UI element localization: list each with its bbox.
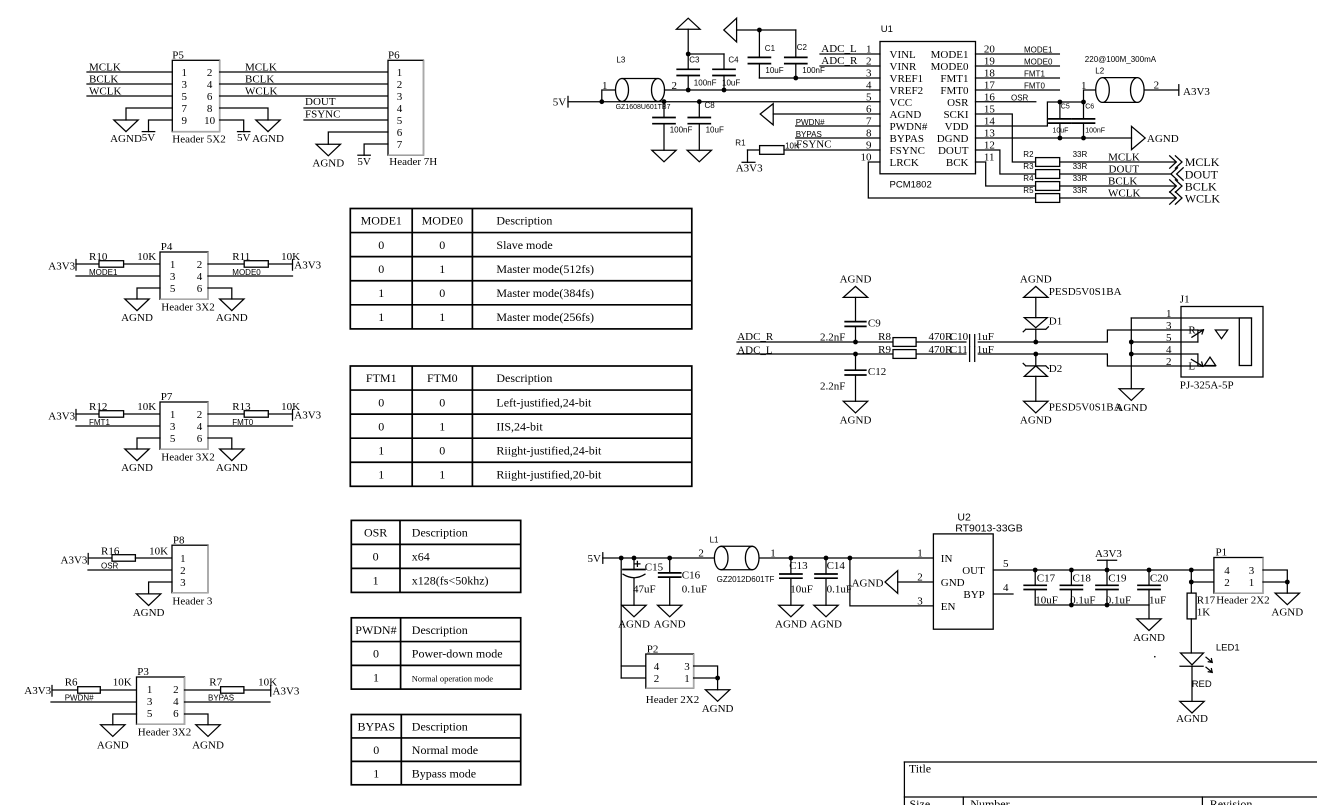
wire MODE1 net at U1 pin20 [976, 46, 1060, 55]
header P8 [172, 534, 213, 607]
svg-text:2.2nF: 2.2nF [820, 380, 845, 392]
svg-text:4: 4 [654, 661, 660, 673]
svg-text:1: 1 [439, 310, 445, 324]
svg-text:Riight-justified,24-bit: Riight-justified,24-bit [496, 443, 602, 457]
wire J1 pin1 [1131, 317, 1181, 319]
capacitor C4 10uF [713, 54, 740, 90]
svg-text:BYPAS: BYPAS [358, 719, 396, 733]
wire LRCK loop U1 pin10 to R5 [868, 162, 1035, 198]
svg-text:3: 3 [180, 577, 186, 589]
ground at C8 [687, 150, 711, 162]
svg-text:1: 1 [378, 443, 384, 457]
wire R17 to LED1 [1190, 619, 1192, 653]
svg-text:ADC_R: ADC_R [737, 331, 774, 343]
svg-text:AGND: AGND [840, 273, 872, 285]
ground AGND below P2 [705, 690, 729, 702]
svg-text:1: 1 [147, 684, 153, 696]
svg-text:L2: L2 [1095, 67, 1104, 76]
title block frame [904, 762, 1317, 805]
svg-text:P3: P3 [137, 666, 149, 678]
svg-text:Master mode(512fs): Master mode(512fs) [496, 262, 594, 276]
svg-text:C1: C1 [765, 44, 776, 53]
svg-text:Description: Description [412, 526, 468, 540]
wire BYPAS net to U1 pin8 [796, 130, 880, 139]
svg-text:Master mode(384fs): Master mode(384fs) [496, 286, 594, 300]
junction dot C6 bottom [1081, 136, 1086, 141]
svg-text:5: 5 [1166, 332, 1172, 344]
svg-text:1: 1 [170, 259, 176, 271]
capacitor C16 0.1uF [659, 558, 707, 605]
svg-text:DOUT: DOUT [1109, 163, 1140, 175]
svg-text:1: 1 [602, 80, 608, 92]
svg-text:A3V3: A3V3 [48, 410, 75, 422]
power port A3V3 right of R13 [293, 410, 322, 422]
svg-text:AGND: AGND [890, 109, 922, 121]
svg-text:1: 1 [1166, 308, 1172, 320]
wire L1 to U2 IN [759, 557, 933, 559]
svg-text:Size: Size [910, 797, 931, 805]
svg-text:R16: R16 [101, 545, 120, 557]
svg-text:A3V3: A3V3 [294, 410, 321, 422]
svg-text:AGND: AGND [1176, 713, 1208, 725]
svg-text:33R: 33R [1073, 150, 1088, 159]
ground AGND arrow right on DGND [1132, 126, 1179, 149]
resistor R4 33R [1023, 174, 1087, 191]
svg-text:FTM1: FTM1 [366, 371, 397, 385]
svg-text:Header 2X2: Header 2X2 [646, 694, 699, 706]
junction dot C7 top [662, 99, 667, 104]
wire FMT0 net at U1 pin17 [976, 82, 1060, 91]
svg-text:MODE0: MODE0 [232, 268, 261, 277]
svg-text:Header 3X2: Header 3X2 [161, 301, 214, 313]
wire MODE0 net to P4 pin4 [208, 268, 293, 277]
ground AGND at P3 pin6 [185, 714, 224, 751]
svg-text:Riight-justified,20-bit: Riight-justified,20-bit [496, 467, 602, 481]
svg-text:2: 2 [397, 79, 403, 91]
svg-text:P5: P5 [172, 50, 184, 62]
svg-text:R4: R4 [1023, 174, 1034, 183]
svg-text:MODE0: MODE0 [931, 61, 969, 73]
svg-text:2: 2 [173, 684, 179, 696]
capacitor C20 1uF [1138, 570, 1169, 607]
svg-text:AGND: AGND [618, 618, 650, 630]
junction dot bus C18 [1069, 603, 1074, 608]
wire MCLK into P5 pin1 [87, 62, 172, 74]
svg-text:MODE1: MODE1 [1024, 46, 1053, 55]
svg-text:MODE1: MODE1 [361, 214, 402, 228]
svg-text:ADC_L: ADC_L [821, 43, 857, 55]
ground AGND below C12 [843, 401, 867, 413]
svg-text:Description: Description [496, 214, 552, 228]
svg-text:FMT1: FMT1 [940, 73, 968, 85]
wire BCLK P5 pin4 to P6 pin2 [220, 74, 388, 86]
junction dot C5 top [1058, 100, 1063, 105]
wire ADC_R net to U1 pin2 [820, 55, 880, 67]
junction dot C16 [667, 556, 672, 561]
svg-text:4: 4 [1224, 565, 1230, 577]
svg-text:AGND: AGND [216, 462, 248, 474]
junction dot P1 pin2 [1189, 580, 1194, 585]
svg-text:BYPAS: BYPAS [208, 694, 234, 703]
svg-text:RT9013-33GB: RT9013-33GB [955, 523, 1023, 535]
resistor R17 1K vertical [1187, 593, 1216, 619]
resistor R13 [208, 401, 300, 417]
wire R3 to DOUT port [1060, 163, 1171, 175]
wire P1 pin1 stub [1263, 581, 1287, 583]
svg-text:5: 5 [170, 433, 176, 445]
svg-text:R6: R6 [65, 677, 78, 689]
wire BCLK into P5 pin3 [87, 74, 172, 86]
capacitor C14 0.1uF [815, 558, 852, 605]
svg-text:10K: 10K [113, 677, 132, 689]
svg-text:MODE1: MODE1 [89, 268, 118, 277]
wire OSR net to P8 pin2 [88, 561, 172, 570]
svg-text:C4: C4 [728, 56, 739, 65]
wire U2 OUT rail A3V3 [993, 569, 1214, 571]
svg-text:Bypass mode: Bypass mode [412, 766, 476, 780]
svg-text:AGND: AGND [775, 618, 807, 630]
table FTM1/FTM0 description [350, 366, 692, 486]
svg-text:R2: R2 [1023, 150, 1034, 159]
capacitor C1 10uF [748, 30, 783, 78]
svg-text:A3V3: A3V3 [736, 163, 763, 175]
svg-text:1: 1 [378, 467, 384, 481]
wire ADC_L net to U1 pin1 [820, 43, 880, 55]
svg-text:PESD5V0S1BA: PESD5V0S1BA [1049, 286, 1122, 298]
junction dot P2 right [715, 676, 720, 681]
svg-text:1: 1 [180, 553, 186, 565]
inductor L1 GZ2012D601TF [698, 536, 775, 584]
svg-text:FMT1: FMT1 [89, 418, 110, 427]
svg-text:FMT1: FMT1 [1024, 70, 1045, 79]
J1 L contact [1181, 354, 1216, 372]
svg-text:0: 0 [373, 647, 379, 661]
svg-text:A3V3: A3V3 [1183, 86, 1210, 98]
header P4 [160, 241, 215, 313]
svg-text:2: 2 [207, 67, 213, 79]
svg-text:A3V3: A3V3 [61, 554, 88, 566]
ground AGND below D2 [1024, 401, 1048, 413]
svg-text:0: 0 [439, 443, 445, 457]
wire PWDN# net to P3 pin3 [51, 694, 137, 703]
wire R5 to WCLK port [1060, 187, 1176, 199]
svg-text:Master mode(256fs): Master mode(256fs) [496, 310, 594, 324]
svg-text:0: 0 [373, 743, 379, 757]
svg-text:0: 0 [378, 238, 384, 252]
junction dot C13 [789, 556, 794, 561]
wire VDD U1 pin14 to C5 C6 [976, 102, 1084, 126]
svg-text:1K: 1K [1197, 607, 1211, 619]
svg-text:U1: U1 [881, 24, 893, 35]
capacitor C18 0.1uF [1060, 570, 1095, 607]
svg-text:AGND: AGND [133, 607, 165, 619]
svg-text:C19: C19 [1108, 572, 1127, 584]
svg-text:SCKI: SCKI [943, 109, 968, 121]
svg-text:AGND: AGND [1147, 133, 1179, 145]
junction dot C12 [853, 352, 858, 357]
svg-text:6: 6 [197, 433, 203, 445]
svg-text:MODE0: MODE0 [422, 214, 463, 228]
svg-text:AGND: AGND [121, 312, 153, 324]
svg-text:0: 0 [378, 419, 384, 433]
connector J1 PJ-325A-5P [1166, 294, 1263, 392]
resistor R9 470R [878, 344, 953, 359]
svg-text:0: 0 [373, 550, 379, 564]
wire MODE0 net at U1 pin19 [976, 58, 1060, 67]
wire bus to ground [1148, 605, 1150, 619]
svg-text:FMT0: FMT0 [232, 418, 253, 427]
ground AGND at P5 pin7 [110, 108, 172, 145]
wire J1 ground bus [1130, 318, 1132, 389]
svg-text:VREF1: VREF1 [890, 73, 924, 85]
header P1 [1214, 547, 1270, 607]
svg-text:3: 3 [917, 595, 923, 607]
ground AGND right of P1 [1275, 593, 1299, 605]
ground AGND above C9 [840, 273, 872, 321]
junction dot C2 bottom [793, 76, 798, 81]
wire FMT1 net at U1 pin18 [976, 70, 1060, 79]
svg-text:1: 1 [1081, 80, 1087, 92]
svg-text:AGND: AGND [1115, 402, 1147, 414]
svg-text:J1: J1 [1180, 294, 1190, 306]
svg-text:6: 6 [197, 283, 203, 295]
svg-text:BCLK: BCLK [245, 74, 274, 86]
svg-text:0: 0 [439, 395, 445, 409]
svg-text:VINR: VINR [890, 61, 918, 73]
svg-text:AGND: AGND [810, 618, 842, 630]
ground AGND below LED1 [1180, 701, 1204, 713]
wire SCKI U1 pin15 to R2 [976, 114, 1036, 162]
svg-text:4: 4 [197, 271, 203, 283]
svg-text:33R: 33R [1073, 162, 1088, 171]
resistor R8 470R [878, 331, 953, 346]
svg-text:5V: 5V [588, 553, 602, 565]
IC U1 PCM1802 [861, 24, 996, 190]
svg-text:VREF2: VREF2 [890, 85, 924, 97]
power port A3V3 below R1 [736, 150, 763, 175]
svg-text:C15: C15 [645, 561, 664, 573]
svg-text:LRCK: LRCK [890, 157, 919, 169]
svg-text:DOUT: DOUT [938, 145, 969, 157]
power port A3V3 right of L2 [1179, 85, 1211, 98]
capacitor C3 100nF [677, 54, 716, 90]
ground AGND at P6 pin6 [312, 132, 388, 169]
capacitor C10 1uF series [950, 331, 994, 349]
junction dot P2 drop [619, 556, 624, 561]
header P3 [137, 666, 192, 738]
svg-text:4: 4 [1166, 344, 1172, 356]
power 5V at P6 pin7 [357, 144, 388, 168]
svg-text:0: 0 [439, 238, 445, 252]
svg-text:C2: C2 [797, 43, 808, 52]
resistor R5 33R [1023, 186, 1087, 203]
capacitor C8 10uF [688, 101, 724, 150]
svg-text:Header 3X2: Header 3X2 [138, 726, 191, 738]
IC U2 RT9013-33GB [917, 512, 1022, 630]
svg-text:R17: R17 [1197, 595, 1216, 607]
svg-text:AGND: AGND [121, 462, 153, 474]
wire capacitor ground bus [1035, 604, 1149, 606]
svg-text:Description: Description [412, 623, 468, 637]
svg-text:Power-down mode: Power-down mode [412, 647, 503, 661]
ground AGND below J1 [1119, 389, 1143, 401]
table BYPAS description [351, 715, 520, 785]
wire L3 pin2 to U1 pin4 VREF2 [665, 89, 881, 91]
svg-text:1: 1 [439, 262, 445, 276]
J1 jack barrel [1239, 318, 1251, 366]
svg-text:Description: Description [412, 719, 468, 733]
svg-text:1: 1 [439, 419, 445, 433]
svg-text:R10: R10 [89, 251, 108, 263]
svg-text:AGND: AGND [840, 415, 872, 427]
svg-text:2.2nF: 2.2nF [820, 331, 845, 343]
wire WCLK P5 pin6 to P6 pin3 [220, 86, 388, 98]
capacitor C2 100nF [785, 30, 825, 78]
power port 5V left of U1 [553, 96, 568, 108]
svg-text:5: 5 [147, 708, 153, 720]
svg-text:C12: C12 [868, 366, 886, 378]
svg-text:PWDN#: PWDN# [65, 694, 94, 703]
wire FMT0 net to P7 pin4 [208, 418, 293, 427]
svg-text:3: 3 [147, 696, 153, 708]
resistor R2 33R [1023, 150, 1087, 167]
svg-text:1: 1 [917, 547, 923, 559]
ground AGND at P3 pin5 [97, 714, 137, 751]
wire DOUT to P6 pin4 [304, 96, 388, 108]
svg-text:1: 1 [373, 670, 379, 684]
svg-text:AGND: AGND [1133, 632, 1165, 644]
svg-text:Revision: Revision [1210, 797, 1253, 805]
svg-text:2: 2 [654, 673, 660, 685]
svg-text:1: 1 [373, 766, 379, 780]
junction dot P1 right [1285, 580, 1290, 585]
svg-text:1: 1 [378, 310, 384, 324]
svg-text:6: 6 [207, 91, 213, 103]
svg-text:100nF: 100nF [802, 66, 825, 75]
svg-text:OUT: OUT [962, 565, 985, 577]
svg-text:1: 1 [170, 409, 176, 421]
power 5V at P5 pin9 [142, 120, 173, 144]
svg-text:1uF: 1uF [1149, 595, 1166, 607]
svg-text:9: 9 [182, 115, 188, 127]
resistor R12 [76, 401, 160, 417]
svg-text:3: 3 [684, 661, 690, 673]
resistor R11 [208, 251, 300, 267]
svg-text:5: 5 [182, 91, 188, 103]
svg-text:EN: EN [941, 601, 956, 613]
svg-text:1uF: 1uF [977, 331, 994, 343]
svg-text:Header 2X2: Header 2X2 [1216, 595, 1269, 607]
wire FMT1 net to P7 pin3 [76, 418, 160, 427]
svg-text:4: 4 [197, 421, 203, 433]
wire ADC_L to J1 pin2 [737, 344, 1181, 366]
svg-text:FMT0: FMT0 [940, 85, 969, 97]
svg-text:7: 7 [397, 139, 403, 151]
wire 5V rail to U1 pin5 VCC [568, 101, 880, 103]
svg-text:C3: C3 [689, 56, 700, 65]
capacitor C6 100nF [1073, 102, 1106, 138]
svg-text:C10: C10 [950, 331, 969, 343]
J1 R contact [1181, 325, 1228, 342]
ground AGND at P7 pin5 [121, 438, 160, 474]
svg-text:FSYNC: FSYNC [796, 138, 831, 150]
svg-text:10K: 10K [137, 401, 156, 413]
wire P1 pin2 stub [1191, 581, 1214, 583]
junction dot bus C19 [1105, 603, 1110, 608]
ground at C7 [652, 150, 676, 162]
port MCLK [1170, 155, 1220, 169]
resistor R7 [185, 677, 278, 694]
svg-text:C8: C8 [705, 101, 716, 110]
capacitor C15 47uF electrolytic [623, 558, 664, 605]
svg-text:A3V3: A3V3 [24, 685, 51, 697]
svg-text:33R: 33R [1073, 186, 1088, 195]
ground AGND below C13 [779, 605, 803, 617]
svg-text:C13: C13 [789, 560, 808, 572]
svg-text:R9: R9 [878, 344, 891, 356]
svg-text:AGND: AGND [1020, 415, 1052, 427]
ground AGND at P4 pin6 [208, 288, 248, 324]
svg-text:P4: P4 [161, 241, 173, 253]
junction dot C18 [1069, 568, 1074, 573]
svg-text:FTM0: FTM0 [427, 371, 458, 385]
svg-text:10K: 10K [137, 251, 156, 263]
svg-text:BCLK: BCLK [89, 74, 118, 86]
junction dot C4 bottom [722, 88, 727, 93]
wire P2 pin4 stub [621, 665, 646, 667]
svg-text:6: 6 [173, 708, 179, 720]
resistor R16 [88, 545, 172, 561]
wire J1 pin5 [1131, 341, 1181, 343]
svg-text:PESD5V0S1BA: PESD5V0S1BA [1049, 402, 1122, 414]
svg-text:4: 4 [1003, 582, 1009, 594]
svg-text:BCLK: BCLK [1108, 175, 1137, 187]
svg-text:ADC_L: ADC_L [737, 344, 773, 356]
wire DGND U1 pin13 to AGND arrow [976, 137, 1132, 139]
junction dot C3 bottom [686, 88, 691, 93]
svg-text:10uF: 10uF [765, 66, 783, 75]
svg-text:ADC_R: ADC_R [821, 55, 858, 67]
capacitor C12 2.2nF [820, 354, 886, 401]
power port 5V at U2 input [588, 553, 603, 566]
inductor L3 GZ1608 [602, 56, 677, 112]
svg-text:220@100M_300mA: 220@100M_300mA [1085, 55, 1157, 64]
port BCLK [1170, 179, 1217, 193]
stray dot mark [1154, 656, 1156, 658]
wire EN tie to input [850, 558, 934, 606]
junction dot C9 [853, 340, 858, 345]
svg-text:5V: 5V [357, 156, 371, 168]
svg-text:5: 5 [397, 115, 403, 127]
wire PWDN# net to U1 pin7 [796, 118, 880, 127]
svg-text:WCLK: WCLK [1108, 187, 1140, 199]
junction dot C5 bottom [1058, 136, 1063, 141]
svg-text:WCLK: WCLK [245, 86, 277, 98]
svg-text:LED1: LED1 [1216, 642, 1240, 653]
svg-text:P8: P8 [173, 534, 185, 546]
svg-text:2: 2 [197, 409, 203, 421]
svg-text:10uF: 10uF [790, 584, 813, 596]
junction dot C15 [632, 556, 637, 561]
svg-text:D2: D2 [1049, 363, 1062, 375]
power port A3V3 left of R6 [24, 685, 52, 697]
svg-text:WCLK: WCLK [1185, 191, 1221, 205]
wire DOUT U1 pin12 to R3 [976, 150, 1036, 174]
junction dot C14 [824, 556, 829, 561]
svg-text:Header 7H: Header 7H [389, 156, 437, 168]
power port A3V3 above C19 [1095, 548, 1122, 570]
inductor L2 220@100M [1081, 55, 1179, 102]
